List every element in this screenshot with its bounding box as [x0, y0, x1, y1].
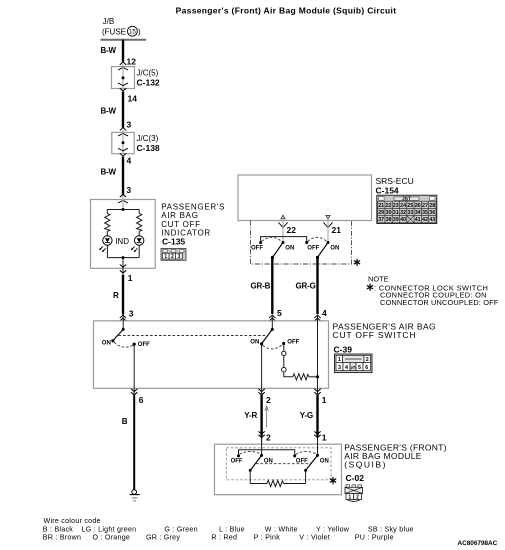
wire to squib	[250, 483, 267, 485]
wire bottom bar	[107, 257, 139, 259]
svg-text:CUT OFF: CUT OFF	[161, 220, 201, 229]
node OFF contact module right	[293, 454, 296, 457]
svg-text:21: 21	[332, 225, 342, 235]
node pivot module left	[249, 469, 252, 472]
svg-text:22: 22	[287, 225, 297, 235]
dashed travel arc right switch	[263, 345, 283, 349]
connector fork pin 5	[269, 315, 275, 321]
wire right branch to LED	[138, 231, 140, 236]
wire left branch drop	[106, 210, 108, 214]
svg-text:J/C(3): J/C(3)	[137, 134, 159, 143]
node pivot left	[271, 256, 274, 259]
dashed travel arc right lock switch	[308, 237, 327, 241]
wire colour code legend	[43, 517, 414, 542]
resistor left (indicator)	[105, 213, 110, 231]
dashed mechanical link module	[256, 463, 312, 465]
svg-text:Wire colour code: Wire colour code	[44, 517, 101, 525]
svg-text:Y-G: Y-G	[300, 411, 313, 420]
svg-text:OFF: OFF	[251, 246, 263, 252]
resistor in switch	[293, 374, 309, 380]
svg-text:1: 1	[338, 357, 341, 363]
svg-text:3: 3	[126, 185, 131, 195]
svg-text:1: 1	[322, 395, 327, 405]
node ON contact right switch	[260, 342, 263, 345]
wire pivot left down	[249, 470, 251, 483]
node OFF contact right switch	[282, 342, 285, 345]
svg-text:PU : Purple: PU : Purple	[355, 534, 394, 542]
svg-text:ON: ON	[264, 458, 273, 464]
dashed travel arc module right	[296, 451, 317, 454]
svg-text:GR-B: GR-B	[251, 282, 271, 291]
svg-text:5: 5	[277, 308, 282, 318]
contact circle lower	[282, 367, 287, 372]
svg-text:35: 35	[422, 210, 428, 216]
svg-text:ON: ON	[320, 458, 329, 464]
svg-text:29: 29	[378, 210, 384, 216]
svg-text:2: 2	[366, 357, 369, 363]
svg-text:LG : Light green: LG : Light green	[82, 525, 137, 533]
svg-text:CONNECTOR UNCOUPLED: OFF: CONNECTOR UNCOUPLED: OFF	[380, 298, 499, 307]
right switch lever	[262, 329, 273, 343]
svg-text:Passenger's (Front) Air Bag Mo: Passenger's (Front) Air Bag Module (Squi…	[176, 5, 397, 15]
connector fork pin 1	[314, 389, 320, 395]
junction box J/C(3) C-138	[112, 130, 160, 154]
wire right vertical pin4 to pin1	[317, 316, 319, 388]
svg-text:24: 24	[400, 203, 406, 209]
svg-text:5: 5	[358, 365, 361, 371]
module right lock lever	[306, 455, 318, 470]
wire B-W from J/B to J/C(5) pin 12	[122, 40, 124, 62]
svg-text:B : Black: B : Black	[43, 525, 73, 533]
svg-text:ON: ON	[330, 246, 339, 252]
svg-text:14: 14	[128, 94, 138, 104]
svg-text:SRS-ECU: SRS-ECU	[376, 176, 414, 186]
node resistor junction	[316, 375, 319, 378]
dashed mechanical link line	[119, 335, 267, 337]
svg-text:28: 28	[429, 203, 435, 209]
svg-text:NOTE: NOTE	[368, 274, 389, 283]
svg-text:p5: p5	[351, 365, 356, 370]
connector fork pin 3 switch	[120, 315, 126, 321]
node top junction	[122, 208, 125, 211]
svg-text:OFF: OFF	[231, 459, 243, 465]
svg-text:ON: ON	[250, 339, 259, 345]
connector table C-154	[377, 195, 437, 223]
wire B to ground	[133, 388, 135, 396]
shorting bar between module OFF contacts	[239, 450, 295, 456]
svg-text:34: 34	[415, 210, 421, 216]
svg-text:CUT OFF SWITCH: CUT OFF SWITCH	[333, 330, 417, 340]
svg-text:GR-G: GR-G	[296, 282, 316, 291]
svg-text:C-02: C-02	[346, 473, 365, 483]
dashed box squib lock switches	[226, 448, 331, 480]
svg-text:ON: ON	[285, 246, 294, 252]
svg-text:2: 2	[266, 395, 271, 405]
wire LED left to bottom bar	[106, 245, 108, 257]
grey wire pin 22 to lock switch	[282, 221, 284, 243]
svg-text:AIR BAG: AIR BAG	[161, 211, 199, 220]
connector fork pin 4	[314, 315, 320, 321]
module name text	[344, 442, 447, 483]
wire pin3 into box	[122, 316, 124, 329]
svg-text:R: R	[113, 291, 119, 300]
triangle marker up	[281, 215, 285, 219]
svg-text:36: 36	[429, 210, 435, 216]
svg-text:25: 25	[407, 203, 413, 209]
node OFF contact left	[259, 241, 262, 244]
wire junction to box bottom	[122, 258, 124, 269]
dashed travel arc left lock switch	[262, 237, 282, 241]
node OFF contact right	[305, 241, 308, 244]
svg-text:J/B: J/B	[103, 17, 115, 26]
node ON contact module right	[316, 454, 319, 457]
wire Y-G	[317, 388, 319, 396]
node ON contact module left	[260, 454, 263, 457]
svg-text:(SQUIB): (SQUIB)	[344, 459, 387, 469]
svg-text:W : White: W : White	[265, 525, 298, 533]
wire pivot right down	[305, 470, 307, 483]
svg-text:2: 2	[266, 432, 271, 442]
wire GR-B	[271, 258, 273, 314]
svg-text:31: 31	[393, 210, 399, 216]
svg-text:6: 6	[139, 395, 144, 405]
svg-text:B-W: B-W	[101, 46, 117, 55]
svg-text:Y : Yellow: Y : Yellow	[316, 525, 350, 533]
wire right branch drop	[138, 210, 140, 214]
connector fork pin 1 indicator	[120, 265, 126, 274]
svg-text:1: 1	[128, 273, 133, 283]
svg-text:R : Red: R : Red	[211, 534, 237, 542]
svg-text:37: 37	[378, 217, 384, 223]
svg-text:1: 1	[164, 254, 167, 260]
svg-text:2: 2	[356, 494, 359, 500]
LED left (IND lamp)	[99, 236, 112, 253]
svg-text:26: 26	[415, 203, 421, 209]
wire left branch to LED	[106, 231, 108, 236]
grey wire pin 21 to lock switch	[327, 221, 329, 243]
wire pin3 to top junction	[122, 196, 124, 210]
svg-text:3: 3	[127, 120, 132, 130]
connector fork pin 22	[278, 222, 287, 227]
svg-text:4: 4	[345, 365, 348, 371]
connector fork pin 21	[323, 222, 332, 227]
svg-text:1: 1	[322, 432, 327, 442]
svg-text:23: 23	[393, 203, 399, 209]
wire LED right to bottom bar	[138, 245, 140, 257]
connector fork module pin 2	[258, 431, 264, 437]
left switch lever	[113, 329, 123, 340]
svg-text:PASSENGER'S: PASSENGER'S	[161, 203, 225, 212]
dashed travel arc module left	[240, 451, 261, 454]
svg-text:J/C(5): J/C(5)	[137, 69, 159, 78]
svg-text:38: 38	[386, 217, 392, 223]
svg-text:AC806798AC: AC806798AC	[458, 540, 498, 547]
svg-text:C-39: C-39	[334, 344, 353, 354]
svg-text:42: 42	[422, 217, 428, 223]
dash-dot box connector lock switches	[251, 221, 352, 265]
connector fork pin 3	[118, 127, 128, 135]
wire OFF contact down	[283, 344, 285, 352]
junction box J/C(5) C-132	[112, 64, 160, 89]
node bottom junction	[122, 256, 125, 259]
wire OFF contact to pin 6	[133, 344, 135, 388]
svg-text:L : Blue: L : Blue	[219, 525, 245, 533]
node pivot module right	[304, 469, 307, 472]
SRS-ECU box C-154	[238, 175, 372, 221]
connector icon C-02	[345, 485, 363, 502]
squib resistor	[267, 480, 284, 486]
wire B-W from J/C(5) to J/C(3)	[122, 92, 124, 128]
svg-text:43: 43	[429, 217, 435, 223]
svg-text:39: 39	[393, 217, 399, 223]
svg-text:4: 4	[322, 308, 327, 318]
svg-text:27: 27	[422, 203, 428, 209]
J/B fuse 15 label	[102, 17, 141, 37]
svg-text:OFF: OFF	[287, 339, 299, 345]
svg-text:B-W: B-W	[101, 168, 117, 177]
svg-text:BR : Brown: BR : Brown	[43, 534, 81, 542]
svg-text:B: B	[122, 417, 128, 426]
svg-text:41: 41	[415, 217, 421, 223]
svg-text:O : Orange: O : Orange	[93, 534, 131, 542]
svg-text:15: 15	[129, 29, 136, 36]
indicator box PASSENGER'S AIR BAG CUT OFF INDICATOR C-135	[91, 200, 156, 269]
svg-text:32: 32	[400, 210, 406, 216]
connector fork pin 12	[118, 62, 128, 70]
wire squib to pivot right	[284, 483, 306, 485]
node ON contact left	[282, 241, 285, 244]
node ON contact right	[327, 241, 330, 244]
resistor right (indicator)	[137, 213, 142, 231]
svg-text:C-135: C-135	[162, 237, 185, 247]
LED right (IND lamp)	[131, 236, 144, 253]
svg-text:SB : Sky blue: SB : Sky blue	[368, 525, 414, 533]
node OFF contact module left	[237, 454, 240, 457]
wire ON contact to pin 2	[261, 344, 263, 389]
direction arrow	[265, 406, 269, 427]
svg-text:G : Green: G : Green	[164, 525, 197, 533]
wire Y-R	[261, 388, 263, 396]
wire GR-G	[316, 258, 318, 314]
lock switch left lever	[273, 243, 284, 258]
svg-text:21: 21	[378, 203, 384, 209]
ground symbol	[130, 490, 140, 501]
svg-text:GR : Grey: GR : Grey	[146, 534, 180, 542]
svg-text:C-154: C-154	[376, 186, 399, 196]
NOTE text block	[367, 274, 498, 307]
wire R from indicator to switch	[122, 268, 124, 276]
wire B-W from J/C(3) to indicator	[122, 157, 124, 196]
star marker module	[330, 477, 335, 483]
wire circle to resistor	[284, 372, 293, 377]
svg-text:3: 3	[129, 309, 134, 319]
connector fork pin 3 indicator	[118, 194, 128, 203]
svg-text:(FUSE: (FUSE	[102, 28, 126, 37]
indicator name text	[161, 203, 225, 247]
wire module pin1 to ON contact	[317, 439, 319, 456]
wire pin5 into box	[271, 316, 273, 329]
node pivot right switch	[271, 328, 274, 331]
connector icon C-135	[161, 249, 186, 261]
svg-text:3: 3	[178, 254, 181, 260]
star marker	[354, 259, 359, 265]
node pivot left switch	[122, 328, 125, 331]
svg-text:IND: IND	[115, 237, 129, 246]
wire module pin2 to ON contact	[261, 439, 263, 456]
svg-text:P : Pink: P : Pink	[254, 534, 281, 542]
wire between circles	[283, 356, 285, 368]
svg-text:OFF: OFF	[296, 459, 308, 465]
air bag module box PASSENGER'S (FRONT) AIR BAG MODULE (SQUIB) C-02	[215, 444, 342, 495]
svg-text:4: 4	[127, 156, 132, 166]
lock switch right lever	[318, 243, 329, 258]
svg-text:12: 12	[127, 57, 137, 67]
svg-text:OFF: OFF	[307, 246, 319, 252]
connector fork pin 6	[131, 389, 137, 395]
connector fork pin 14	[118, 83, 128, 91]
svg-text:C-132: C-132	[137, 78, 160, 88]
contact circle upper	[282, 351, 286, 355]
wire resistor to right line	[309, 376, 318, 378]
svg-text:OFF: OFF	[138, 342, 150, 348]
svg-text:40: 40	[400, 217, 406, 223]
svg-text:22: 22	[386, 203, 392, 209]
node OFF contact left switch	[133, 343, 136, 346]
connector fork module pin 1	[314, 431, 320, 437]
switch name text	[333, 322, 437, 355]
J/B bus bar	[100, 39, 146, 41]
svg-text:6: 6	[365, 365, 368, 371]
connector icon C-39	[335, 354, 373, 373]
node ON contact left switch	[111, 339, 114, 342]
svg-text:B-W: B-W	[101, 107, 117, 116]
node pivot right	[316, 256, 319, 259]
svg-text:33: 33	[407, 210, 413, 216]
svg-text:30: 30	[386, 210, 392, 216]
svg-text:V : Violet: V : Violet	[299, 534, 330, 542]
svg-text:C-138: C-138	[137, 143, 160, 153]
svg-text:2: 2	[171, 254, 174, 260]
connector fork pin 4	[118, 148, 128, 156]
svg-text:Y-R: Y-R	[244, 411, 257, 420]
dashed travel arc left switch	[114, 342, 133, 347]
svg-text:ON: ON	[102, 341, 111, 347]
wire branch top bar	[107, 209, 139, 211]
connector fork pin 2	[258, 389, 264, 395]
triangle marker down	[326, 215, 330, 219]
shorting bar between OFF contacts	[261, 237, 307, 243]
svg-text:1: 1	[348, 494, 351, 500]
svg-text:3: 3	[338, 365, 341, 371]
svg-text:): )	[138, 28, 141, 37]
cut off switch box PASSENGER'S AIR BAG CUT OFF SWITCH C-39	[94, 321, 329, 389]
module left lock lever	[250, 455, 261, 470]
